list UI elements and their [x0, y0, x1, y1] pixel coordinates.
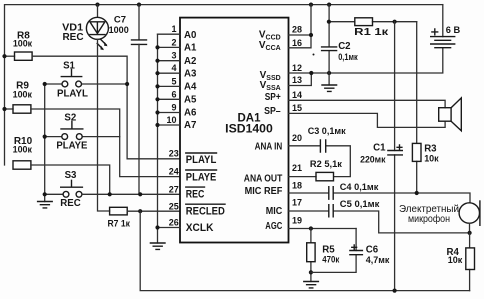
- svg-text:470к: 470к: [322, 255, 339, 265]
- battery GB1 6V: [431, 5, 461, 48]
- wire top VCC rail and left rail: [5, 5, 443, 165]
- pin 15 SP- wire to speaker: [289, 113, 446, 127]
- pin numbers right: [292, 25, 302, 226]
- svg-text:12: 12: [292, 63, 302, 73]
- node junctions REC line: [108, 192, 143, 196]
- svg-text:ANA IN: ANA IN: [255, 142, 283, 153]
- svg-text:10: 10: [166, 115, 176, 125]
- svg-text:ISD1400: ISD1400: [225, 121, 273, 135]
- resistor R4: [447, 233, 475, 291]
- capacitor C4 with wire pin 18 MIC REF: [289, 182, 471, 203]
- IC label PLAYE pin24 with overline: [186, 170, 217, 183]
- svg-text:PLAYE: PLAYE: [56, 141, 88, 152]
- switch S2 PLAYE: [45, 112, 120, 151]
- svg-text:REC: REC: [60, 198, 80, 209]
- ground R5 C6: [304, 282, 319, 288]
- svg-text:S2: S2: [64, 112, 76, 123]
- svg-text:6: 6: [171, 89, 176, 99]
- resistor R10: [13, 136, 33, 169]
- svg-text:A0: A0: [184, 30, 196, 41]
- svg-text:23: 23: [169, 149, 179, 159]
- switch S1 PLAYL: [45, 60, 130, 99]
- svg-text:C3 0,1мк: C3 0,1мк: [308, 126, 346, 137]
- svg-text:16: 16: [292, 38, 302, 48]
- pin 26 XCLK stub: [155, 225, 180, 229]
- svg-text:R1 1к: R1 1к: [354, 27, 389, 38]
- svg-text:A7: A7: [184, 120, 196, 131]
- wire switch common line: [44, 84, 46, 202]
- capacitor C3 with wire pin 20 ANA IN loop: [289, 126, 351, 176]
- pin 14 SP+ wire to speaker: [289, 100, 446, 107]
- svg-text:PLAYL: PLAYL: [186, 154, 217, 166]
- svg-text:21: 21: [292, 163, 302, 173]
- pin 12 and 13 stubs VSS wire to battery minus: [289, 49, 443, 86]
- wire R9 to PLAYE line down to pin 24: [31, 109, 180, 177]
- capacitor C6 4.7mk: [311, 229, 390, 273]
- wire R8 to PLAYL line down to pin 23: [32, 56, 180, 159]
- svg-text:C1: C1: [373, 143, 386, 154]
- svg-text:24: 24: [169, 167, 179, 177]
- svg-text:220мк: 220мк: [360, 155, 386, 165]
- svg-text:26: 26: [169, 218, 179, 228]
- speaker BA1: [439, 98, 462, 131]
- svg-text:SP–: SP–: [264, 106, 281, 117]
- pin 19 AGC wire: [289, 226, 357, 230]
- svg-text:18: 18: [292, 181, 302, 191]
- svg-text:C4 0,1мк: C4 0,1мк: [340, 182, 379, 193]
- svg-text:27: 27: [169, 184, 179, 194]
- svg-text:100к: 100к: [13, 90, 33, 100]
- wire RECLED down to bottom rail: [140, 211, 469, 290]
- svg-text:A3: A3: [184, 68, 197, 79]
- svg-text:19: 19: [292, 215, 302, 225]
- svg-text:10к: 10к: [424, 153, 439, 163]
- svg-text:A4: A4: [184, 82, 197, 93]
- pin 28 and 16 stubs to VCC: [289, 5, 314, 48]
- resistor R8: [2, 31, 32, 61]
- svg-text:S3: S3: [65, 170, 77, 181]
- svg-text:PLAYL: PLAYL: [57, 88, 88, 99]
- IC label PLAYL pin23 with overline: [186, 153, 217, 166]
- IC DA1 ISD1400 box: [180, 18, 289, 243]
- svg-text:SP+: SP+: [265, 92, 281, 103]
- ground A-bus: [150, 243, 165, 249]
- svg-text:S1: S1: [63, 60, 75, 71]
- svg-text:4,7мк: 4,7мк: [366, 255, 390, 265]
- node top rail junctions: [95, 3, 331, 7]
- pin numbers left 23-26: [169, 149, 179, 228]
- svg-text:13: 13: [292, 75, 302, 85]
- svg-text:A1: A1: [184, 43, 197, 54]
- svg-text:15: 15: [292, 103, 302, 113]
- resistor R3: [412, 22, 439, 193]
- IC label REC pin27 with overline: [186, 187, 205, 200]
- svg-text:R2 5,1к: R2 5,1к: [310, 159, 342, 170]
- svg-text:100к: 100к: [13, 145, 33, 155]
- svg-text:RECLED: RECLED: [186, 206, 225, 218]
- svg-text:17: 17: [292, 198, 302, 208]
- resistor R1: [327, 18, 417, 38]
- wire LED cathode column down to R7: [98, 39, 110, 211]
- svg-text:0,1мк: 0,1мк: [338, 52, 358, 62]
- node RECLED junction: [138, 209, 142, 213]
- svg-text:A6: A6: [184, 108, 197, 119]
- svg-text:4: 4: [171, 63, 176, 73]
- svg-text:AGC: AGC: [265, 221, 282, 232]
- wire R10 to REC line: [31, 165, 110, 194]
- wire S3 to pin 27 REC: [82, 193, 180, 195]
- wire A-bus left of IC: [157, 34, 159, 243]
- capacitor C2: [322, 5, 358, 85]
- svg-text:микрофон: микрофон: [408, 214, 450, 225]
- resistor R7: [107, 207, 130, 229]
- svg-text:14: 14: [292, 90, 302, 100]
- ground C2: [322, 85, 337, 91]
- capacitor C1 220mk: [360, 22, 402, 291]
- capacitor C7: [109, 5, 147, 45]
- resistor R2 with wire pin 21 ANA OUT: [289, 159, 343, 181]
- svg-text:100к: 100к: [13, 39, 33, 49]
- svg-text:XCLK: XCLK: [186, 222, 214, 234]
- node bottom rail junction: [393, 289, 397, 293]
- svg-text:C2: C2: [338, 41, 350, 52]
- svg-text:A2: A2: [184, 56, 196, 67]
- resistor R5: [307, 229, 340, 282]
- svg-text:1: 1: [171, 24, 176, 34]
- svg-text:A5: A5: [184, 95, 197, 106]
- pin numbers left 1-10: [166, 24, 176, 125]
- svg-text:C5 0,1мк: C5 0,1мк: [340, 199, 380, 210]
- svg-text:9: 9: [171, 103, 176, 113]
- svg-text:C6: C6: [366, 244, 379, 255]
- svg-text:MIC REF: MIC REF: [245, 186, 283, 197]
- svg-text:5: 5: [171, 76, 176, 86]
- IC label RECLED pin25 with overline: [186, 204, 225, 217]
- svg-text:ANA OUT: ANA OUT: [244, 173, 283, 184]
- svg-text:MIC: MIC: [266, 206, 283, 217]
- svg-text:REC: REC: [186, 189, 205, 201]
- svg-text:10к: 10к: [448, 255, 463, 265]
- IC labels A0-A7: [184, 30, 197, 131]
- svg-text:20: 20: [292, 133, 302, 143]
- IC labels right column: [244, 30, 283, 232]
- electret microphone BM1: [399, 201, 480, 235]
- pin stubs A0-A7: [155, 34, 180, 127]
- node switch common junctions: [43, 82, 47, 196]
- svg-text:25: 25: [169, 202, 179, 212]
- wire C7 down to REC line: [138, 44, 140, 194]
- svg-text:6 В: 6 В: [446, 25, 461, 36]
- svg-text:R7 1к: R7 1к: [107, 219, 130, 230]
- svg-text:2: 2: [171, 37, 176, 47]
- svg-text:PLAYE: PLAYE: [186, 171, 217, 183]
- svg-text:REC: REC: [62, 32, 83, 43]
- wire R7 to pin 25 RECLED: [127, 210, 180, 212]
- ground switches: [38, 202, 53, 208]
- svg-text:1000: 1000: [109, 25, 129, 35]
- svg-text:3: 3: [171, 51, 176, 61]
- resistor R9: [2, 80, 32, 113]
- svg-text:C7: C7: [114, 15, 126, 26]
- LED VD1 with REC label: [62, 5, 108, 51]
- svg-text:28: 28: [292, 25, 302, 35]
- switch S3 REC: [45, 170, 83, 209]
- capacitor C5 with wire pin 17 MIC: [289, 199, 470, 233]
